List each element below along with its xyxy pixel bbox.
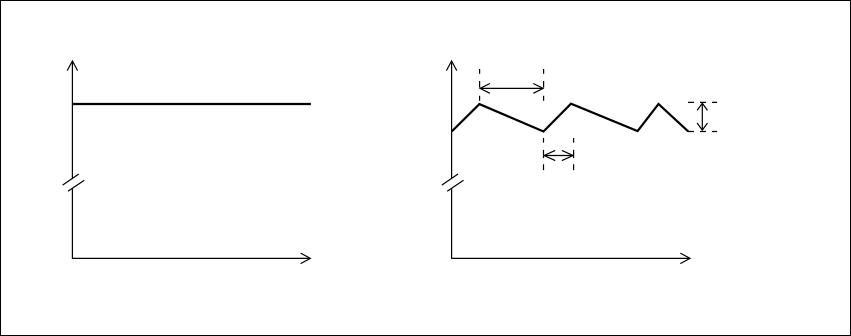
dashed level line at peak right: [688, 101, 717, 103]
axis break left: [63, 174, 85, 191]
axis break right: [442, 174, 464, 191]
dashed guide above first trough: [543, 69, 545, 101]
ripple amplitude arrow: [697, 103, 707, 130]
rise-time measurement arrow: [544, 150, 573, 160]
dashed guide at first peak: [479, 69, 481, 101]
dashed level line at trough right: [688, 131, 717, 133]
y-axis left graph: [67, 61, 77, 259]
DC level line left graph: [72, 103, 311, 105]
x-axis right graph: [452, 253, 690, 264]
dashed guide below first trough: [543, 138, 545, 170]
x-axis left graph: [72, 253, 310, 264]
ripple waveform: [452, 104, 689, 132]
y-axis right graph: [446, 61, 456, 259]
period measurement arrow: [480, 84, 543, 94]
dashed guide below second peak: [573, 138, 575, 170]
